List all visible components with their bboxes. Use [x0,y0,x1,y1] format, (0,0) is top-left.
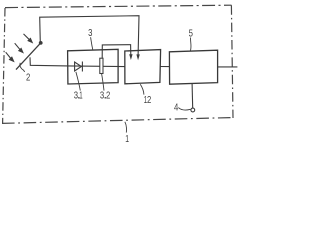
svg-text:4: 4 [174,101,178,113]
arrowhead into box 12 (left input) [129,54,132,60]
svg-text:1: 1 [125,133,129,145]
label 3.2 leader [102,74,104,91]
light arrow b [15,43,23,52]
svg-text:1: 1 [79,90,82,102]
wire: through box 3 [68,65,125,68]
svg-text:2: 2 [26,72,30,84]
box 3: signal conditioning block [68,49,119,84]
label 1 leader [125,122,127,133]
label 5 leader [190,38,193,51]
enclosure boundary left (dash-dot) [3,8,5,123]
label 3.1 [74,90,83,102]
resistor 3.2 [100,58,103,73]
label 3.1 leader [76,72,80,91]
label 2 leader (squiggle) [20,63,25,72]
svg-text:2: 2 [106,90,110,102]
wire: box 5 to terminal 4 [191,84,194,108]
wire: top bus from photodetector node over to converter 12 [40,16,139,56]
wire: photodetector to box 3 (lower wire) [30,57,68,66]
wire: box 12 to box 5 [160,66,169,68]
terminal 4 (open circle) [191,108,195,112]
svg-text:3: 3 [100,90,104,102]
photodetector 2: light-sensitive surface (diagonal stroke) [16,43,41,70]
label 3.2 [100,90,111,102]
wire: box 5 to output through boundary [218,66,238,68]
box 5: output block [169,50,217,84]
enclosure boundary right (dash-dot) [231,5,233,118]
enclosure boundary top (dash-dot) [5,5,232,7]
enclosure boundary bottom (dash-dot) [2,118,231,124]
arrowhead into box 12 (right input) [136,54,139,60]
light arrow c [6,52,14,61]
diode 3.1 [75,62,83,72]
svg-text:3: 3 [74,90,78,102]
node: junction dot at photodetector [39,41,43,45]
label 12 leader [140,84,144,94]
label 12 [144,94,152,106]
box 12: converter block [125,50,161,84]
wire: resistor 3.2 top to box 12 (left input) [102,45,131,59]
label 3 leader [91,37,93,50]
svg-text:2: 2 [147,94,151,106]
light arrow a [24,34,33,43]
label 4 leader [178,108,190,110]
